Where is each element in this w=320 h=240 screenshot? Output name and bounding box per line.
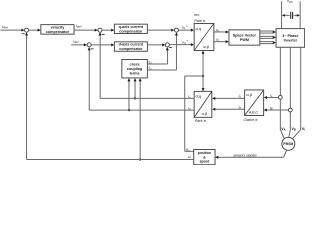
wire ibeta Clarke to Park xyxy=(212,108,245,111)
wire sensors signals xyxy=(215,150,286,159)
svg-text:α,β: α,β xyxy=(203,44,209,49)
wire DC bus right xyxy=(299,1,301,28)
wire phase B xyxy=(289,47,290,137)
block Space Vector PWM xyxy=(229,30,260,45)
block q-axis current compensator xyxy=(114,24,147,33)
svg-text:Inverter: Inverter xyxy=(284,38,298,42)
wire cross input iq xyxy=(134,78,137,99)
svg-text:Space Vector: Space Vector xyxy=(233,34,257,38)
label Clarke tr. xyxy=(243,118,258,122)
sensor tap B xyxy=(288,108,292,112)
svg-text:PMSM: PMSM xyxy=(283,142,293,146)
block Clarke transform xyxy=(245,90,264,116)
block d-axis current compensator xyxy=(114,42,147,51)
wire theta from position block xyxy=(185,76,194,151)
label sensors signals xyxy=(233,153,257,157)
node VDC label xyxy=(287,0,293,4)
capacitor DC link xyxy=(282,12,300,19)
minus sign at S1 xyxy=(22,33,25,35)
node theta label xyxy=(186,148,190,153)
block 3-Phase Inverter xyxy=(276,29,305,48)
node iq label xyxy=(188,95,191,100)
summing junction S2 (q current) xyxy=(98,28,102,32)
wire valpha to SVPWM xyxy=(214,30,229,33)
svg-text:α,β: α,β xyxy=(246,92,252,97)
wire idref xyxy=(71,43,87,46)
svg-text:coupling: coupling xyxy=(127,67,142,71)
motor PMSM xyxy=(282,137,295,150)
wire vd* to inv Park xyxy=(169,43,194,46)
wire cross bottom output to S3a xyxy=(147,32,178,70)
wire omega feedback xyxy=(25,32,194,159)
svg-text:Park tr.: Park tr. xyxy=(195,119,207,123)
node VC label xyxy=(302,127,306,132)
summing junction S1 (speed) xyxy=(25,28,29,32)
node vq-hat label xyxy=(149,66,153,71)
node vd-hat label xyxy=(149,60,153,65)
svg-text:*: * xyxy=(186,40,188,44)
wire d compensator to S3b xyxy=(147,43,165,46)
wire PWM pair C xyxy=(260,41,276,44)
svg-text:ωref: ωref xyxy=(2,25,8,30)
node iqref label xyxy=(76,24,82,29)
block Park transform xyxy=(194,91,212,117)
svg-text:velocity: velocity xyxy=(51,26,66,30)
svg-text:PWM: PWM xyxy=(240,38,249,42)
node omega label xyxy=(188,155,191,159)
wire PWM pair A xyxy=(260,31,276,34)
summing junction S4 (d current) xyxy=(87,43,91,47)
label Park tr. xyxy=(195,119,207,123)
svg-text:VB: VB xyxy=(291,127,295,132)
wire ialpha Clarke to Park xyxy=(212,97,245,100)
minus sign at S3b xyxy=(169,47,172,49)
block position and speed xyxy=(194,149,215,164)
wire vbeta to SVPWM xyxy=(214,40,229,43)
svg-text:Clarke tr.: Clarke tr. xyxy=(243,118,258,122)
svg-text:VA: VA xyxy=(281,127,285,132)
summing junction S3a (vq) xyxy=(174,28,178,32)
svg-text:d-axis current: d-axis current xyxy=(119,43,144,47)
node valpha* label xyxy=(216,28,220,33)
wire cross input id xyxy=(127,78,130,111)
svg-text:idref: idref xyxy=(73,40,79,45)
svg-text:θe: θe xyxy=(186,148,190,153)
svg-text:VDC: VDC xyxy=(287,0,293,4)
summing junction S3b (vd) xyxy=(165,43,169,47)
wire iq feedback xyxy=(98,32,194,98)
svg-text:compensator: compensator xyxy=(119,47,143,51)
minus sign at S2 xyxy=(102,33,105,35)
svg-text:iqref: iqref xyxy=(76,24,82,29)
node vq* label xyxy=(182,25,188,30)
node id label xyxy=(188,107,191,112)
svg-text:d,q: d,q xyxy=(196,94,202,99)
wire theta to transforms xyxy=(202,51,205,92)
wire theta horizontal xyxy=(185,75,204,77)
node idref label xyxy=(73,40,79,45)
wire PWM pair B xyxy=(260,36,276,39)
svg-text:A,B,C: A,B,C xyxy=(249,110,259,114)
node wref input label xyxy=(2,25,8,30)
svg-text:vq: vq xyxy=(182,26,186,31)
block cross coupling terms xyxy=(122,59,148,78)
wire iA to Clarke xyxy=(264,96,279,99)
sensor tap A xyxy=(278,95,282,99)
svg-text:speed: speed xyxy=(199,159,209,163)
svg-text:Park tr.: Park tr. xyxy=(194,19,206,23)
wire phase A xyxy=(280,47,284,138)
wire S2 to q-axis compensator xyxy=(102,29,114,32)
block velocity compensator xyxy=(41,25,74,34)
wire cross top output to S3b xyxy=(147,47,169,64)
wire DC bus left xyxy=(281,1,283,28)
wire iB to Clarke xyxy=(264,109,289,112)
label inv Park tr. xyxy=(194,13,206,23)
node vd* label xyxy=(182,40,188,45)
node ibeta label xyxy=(238,105,241,110)
svg-text:*: * xyxy=(186,25,188,29)
wire phase C xyxy=(293,47,301,138)
svg-text:VC: VC xyxy=(302,127,305,132)
node iA label xyxy=(270,94,273,99)
wire iqref xyxy=(74,29,98,32)
svg-text:compensator: compensator xyxy=(46,30,70,34)
node vbeta* label xyxy=(216,38,220,43)
wire id feedback xyxy=(88,47,195,110)
wire S4 to d-axis compensator xyxy=(91,43,114,46)
node ialpha label xyxy=(239,94,242,99)
wire wref input xyxy=(0,29,24,32)
node VB label xyxy=(291,127,295,132)
block inverse Park transform xyxy=(194,23,214,50)
svg-text:inv.: inv. xyxy=(194,13,200,17)
svg-text:α,β: α,β xyxy=(202,111,208,116)
wire S1 to velocity compensator xyxy=(29,29,41,32)
svg-text:d,q: d,q xyxy=(196,26,202,31)
svg-text:cross: cross xyxy=(130,62,140,66)
node iB label xyxy=(270,106,273,111)
node VA label xyxy=(281,127,285,132)
wire q compensator to S3a xyxy=(147,29,174,32)
svg-text:compensator: compensator xyxy=(119,29,143,33)
svg-text:terms: terms xyxy=(130,72,140,76)
svg-text:ω: ω xyxy=(188,155,191,159)
wire cross input omega xyxy=(139,78,142,160)
svg-text:q-axis current: q-axis current xyxy=(119,25,144,29)
minus sign at S4 xyxy=(91,48,94,50)
wire vq* to inv Park xyxy=(178,29,194,32)
